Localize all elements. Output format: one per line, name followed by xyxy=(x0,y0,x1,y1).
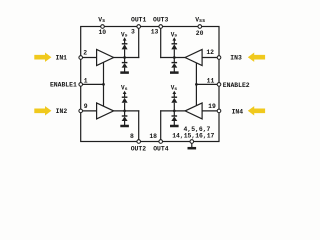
D7/D8 (driver 4) lower diode cathode bar xyxy=(172,115,178,117)
junction node driver2 output xyxy=(123,110,126,113)
D5/D6 (driver 3) lower diode cathode bar xyxy=(172,62,178,64)
wire IN1 to driver 1 xyxy=(81,57,97,59)
D5/D6 (driver 3) upper diode xyxy=(171,44,177,49)
svg-text:IN4: IN4 xyxy=(232,108,244,115)
device boundary rectangle xyxy=(81,27,219,142)
wire ENABLE2 xyxy=(196,83,219,85)
svg-text:ENABLE1: ENABLE1 xyxy=(50,81,77,88)
wire driver 2 output rail xyxy=(114,110,139,112)
D3/D4 (driver 2) ground bar xyxy=(120,125,129,128)
driver U1 xyxy=(97,50,114,66)
svg-text:ENABLE2: ENABLE2 xyxy=(223,82,250,89)
terminal IN3 pin 12 xyxy=(217,56,221,60)
D1/D2 (driver 1) ground bar xyxy=(120,71,129,74)
D1/D2 (driver 1) upper diode xyxy=(122,44,128,49)
yellow arrow at IN3 xyxy=(248,53,265,62)
svg-text:OUT3: OUT3 xyxy=(153,17,169,24)
D3/D4 (driver 2) wire through output node xyxy=(124,103,126,116)
D1/D2 (driver 1) wire arrow to diode xyxy=(124,40,126,44)
wire IN4 to driver 4 xyxy=(202,110,219,112)
svg-text:11: 11 xyxy=(207,78,215,85)
svg-text:1: 1 xyxy=(84,78,88,85)
svg-text:9: 9 xyxy=(84,103,88,110)
svg-text:OUT4: OUT4 xyxy=(153,145,169,152)
D1/D2 (driver 1) Vs supply arrow xyxy=(123,37,127,40)
D1/D2 (driver 1) wire through output node xyxy=(124,49,126,62)
wire ENABLE2 vertical tie driver3/driver4 xyxy=(195,63,197,106)
clamp diode pair D5/D6 (driver 3): Vs label xyxy=(171,31,178,38)
wire OUT3 vertical xyxy=(160,27,162,58)
D3/D4 (driver 2) upper diode xyxy=(122,98,128,103)
svg-text:Vs: Vs xyxy=(98,17,105,25)
svg-text:19: 19 xyxy=(208,103,216,110)
terminal IN1 pin 2 xyxy=(79,56,83,60)
svg-text:18: 18 xyxy=(149,133,157,140)
D7/D8 (driver 4) wire through output node xyxy=(173,103,175,116)
D7/D8 (driver 4) Vs supply arrow xyxy=(172,91,176,94)
wire IN3 to driver 3 xyxy=(202,57,219,59)
clamp diode pair D3/D4 (driver 2): Vs label xyxy=(121,85,128,92)
wire OUT2 vertical xyxy=(138,111,140,142)
D5/D6 (driver 3) wire arrow to diode xyxy=(173,40,175,44)
D3/D4 (driver 2) lower diode cathode bar xyxy=(122,115,128,117)
svg-text:3: 3 xyxy=(131,28,135,35)
wire driver 3 output rail xyxy=(161,57,185,59)
svg-text:20: 20 xyxy=(196,30,204,37)
D7/D8 (driver 4) upper diode xyxy=(171,98,177,103)
svg-text:10: 10 xyxy=(98,29,106,36)
svg-text:IN2: IN2 xyxy=(56,108,68,115)
terminal GND xyxy=(190,140,194,144)
junction ENABLE1 xyxy=(102,83,105,86)
D1/D2 (driver 1) upper diode cathode bar xyxy=(122,43,128,45)
D1/D2 (driver 1) wire to ground xyxy=(124,68,126,72)
terminal ENABLE2 pin 11 xyxy=(217,83,221,87)
D5/D6 (driver 3) upper diode cathode bar xyxy=(172,43,178,45)
D7/D8 (driver 4) wire arrow to diode xyxy=(173,94,175,98)
yellow arrow at IN1 xyxy=(34,53,51,62)
yellow arrow at IN4 xyxy=(248,106,265,115)
terminal OUT4 pin 18 xyxy=(159,140,163,144)
svg-text:IN3: IN3 xyxy=(230,54,242,61)
svg-text:2: 2 xyxy=(83,49,87,56)
GND pin wire below terminal xyxy=(191,142,193,148)
D5/D6 (driver 3) lower diode xyxy=(171,63,177,68)
svg-text:IN1: IN1 xyxy=(55,55,67,62)
clamp diode pair D1/D2 (driver 1): Vs label xyxy=(121,31,128,38)
D5/D6 (driver 3) Vs supply arrow xyxy=(172,37,176,40)
D3/D4 (driver 2) wire to ground xyxy=(124,121,126,125)
D7/D8 (driver 4) upper diode cathode bar xyxy=(172,96,178,98)
D5/D6 (driver 3) wire to ground xyxy=(173,68,175,72)
terminal ENABLE1 pin 1 xyxy=(79,83,83,87)
terminal IN4 pin 19 xyxy=(217,109,221,113)
D5/D6 (driver 3) ground bar xyxy=(170,71,179,74)
terminal OUT1 pin 3 xyxy=(137,25,141,29)
svg-text:12: 12 xyxy=(206,49,214,56)
junction node driver1 output xyxy=(123,56,126,59)
svg-text:OUT1: OUT1 xyxy=(131,17,147,24)
D3/D4 (driver 2) lower diode xyxy=(122,117,128,122)
svg-text:Vss: Vss xyxy=(195,17,205,25)
wire OUT4 vertical xyxy=(160,111,162,142)
D7/D8 (driver 4) wire to ground xyxy=(173,121,175,125)
D3/D4 (driver 2) wire arrow to diode xyxy=(124,94,126,98)
terminal Vss pin 20 xyxy=(198,25,202,29)
junction ENABLE2 xyxy=(195,83,198,86)
wire IN2 to driver 2 xyxy=(81,110,97,112)
driver U2 xyxy=(97,103,114,119)
GND pin ground bar xyxy=(188,147,197,150)
D7/D8 (driver 4) lower diode xyxy=(171,117,177,122)
D7/D8 (driver 4) ground bar xyxy=(170,125,179,128)
svg-text:OUT2: OUT2 xyxy=(131,145,147,152)
terminal IN2 pin 9 xyxy=(79,109,83,113)
wire driver 1 output rail xyxy=(114,57,139,59)
terminal Vs pin 10 xyxy=(101,25,105,29)
yellow arrow at IN2 xyxy=(34,106,51,115)
D3/D4 (driver 2) upper diode cathode bar xyxy=(122,96,128,98)
D1/D2 (driver 1) lower diode xyxy=(122,63,128,68)
wire OUT1 vertical xyxy=(138,27,140,58)
terminal OUT3 pin 13 xyxy=(159,25,163,29)
junction node driver3 output xyxy=(173,56,176,59)
driver U4 xyxy=(185,103,202,119)
svg-text:13: 13 xyxy=(151,28,159,35)
junction node driver4 output xyxy=(173,110,176,113)
wire ENABLE1 vertical tie driver1/driver2 xyxy=(103,62,105,106)
D3/D4 (driver 2) Vs supply arrow xyxy=(123,91,127,94)
D5/D6 (driver 3) wire through output node xyxy=(173,49,175,62)
D1/D2 (driver 1) lower diode cathode bar xyxy=(122,62,128,64)
clamp diode pair D7/D8 (driver 4): Vs label xyxy=(171,85,178,92)
driver U3 xyxy=(185,50,202,66)
terminal OUT2 pin 8 xyxy=(137,140,141,144)
svg-text:8: 8 xyxy=(130,133,134,140)
wire ENABLE1 xyxy=(81,83,104,85)
wire driver 4 output rail xyxy=(161,110,185,112)
svg-text:14,15,16,17: 14,15,16,17 xyxy=(172,133,214,140)
